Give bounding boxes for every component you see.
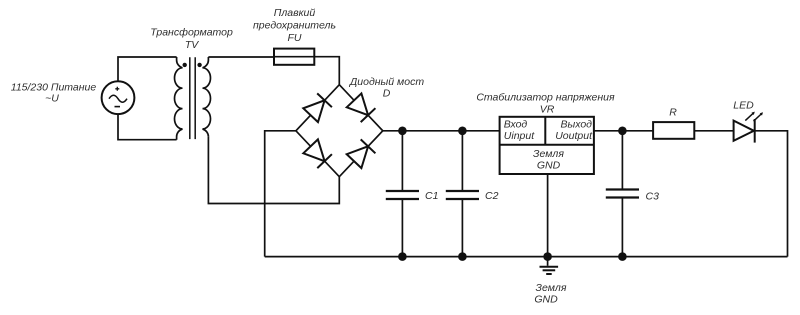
svg-text:~U: ~U [45,93,59,105]
diode D1 top-left [303,93,332,122]
label Трансформатор TV [150,27,233,51]
svg-text:C1: C1 [425,190,438,202]
wire transformer secondary bottom to bridge bottom [208,137,339,204]
transformer core [190,57,195,139]
wire regulator output [594,130,653,132]
capacitor C1 [386,131,419,257]
wire regulator gnd down [547,174,549,266]
svg-text:FU: FU [288,32,302,44]
svg-text:TV: TV [185,39,199,51]
wire transformer top to fuse [208,56,274,58]
svg-text:C2: C2 [485,190,499,202]
AC source G1 [102,81,135,114]
svg-text:R: R [669,107,677,119]
svg-text:предохранитель: предохранитель [253,19,336,31]
junction node GND bottom [543,252,552,261]
label Плавкий предохранитель FU [253,7,336,44]
svg-text:LED: LED [733,100,754,112]
transformer polarity dot right [197,63,201,67]
LED D5 [734,112,763,143]
label Стабилизатор напряжения VR [476,92,615,116]
svg-text:Uinput: Uinput [504,130,535,142]
svg-text:C3: C3 [646,191,660,203]
transformer TV secondary winding [203,57,211,137]
wire resistor to LED [694,130,733,132]
junction node C3 bottom [618,252,627,261]
svg-text:GND: GND [537,160,561,172]
svg-text:Диодный мост: Диодный мост [349,76,424,88]
label Земля GND [534,282,567,305]
diode bridge D frame [296,85,383,177]
junction node C1 bottom [398,252,407,261]
capacitor C3 [606,131,639,257]
svg-text:Выход: Выход [560,118,592,130]
wire source top to transformer [118,57,177,81]
transformer TV primary winding [175,57,183,140]
svg-text:Вход: Вход [504,118,528,130]
label 115/230 Питание ~U [11,82,97,105]
label Диодный мост D [349,76,424,100]
wire negative bottom rail [265,256,788,258]
wire LED to right edge down to rail [755,131,788,257]
svg-text:Трансформатор: Трансформатор [150,27,233,39]
wire bridge right vertex positive rail to regulator [383,130,500,132]
diode D3 bottom-left [303,139,332,168]
svg-text:Земля: Земля [533,148,564,160]
wire source bottom to transformer [118,114,177,140]
capacitor C2 [446,131,479,257]
diode D2 top-right [347,93,376,122]
svg-text:Плавкий: Плавкий [274,7,316,19]
transformer polarity dot left [183,63,187,67]
junction node bridge+ C1 [398,127,407,136]
fuse FU [274,49,314,65]
svg-text:GND: GND [534,293,558,305]
voltage regulator VR [500,117,594,174]
svg-text:Стабилизатор напряжения: Стабилизатор напряжения [476,92,615,104]
junction node C3 top [618,127,627,136]
svg-text:Uoutput: Uoutput [555,130,593,142]
resistor R [653,122,694,139]
junction node C2 bottom [458,252,467,261]
svg-text:VR: VR [540,104,555,116]
ground symbol [540,267,559,274]
wire bridge left vertex to negative rail [265,131,296,257]
wire fuse to bridge top [314,57,339,85]
svg-text:D: D [383,88,391,100]
diode D4 bottom-right [347,139,376,168]
junction node C2 top [458,127,467,136]
svg-text:Земля: Земля [536,282,567,294]
